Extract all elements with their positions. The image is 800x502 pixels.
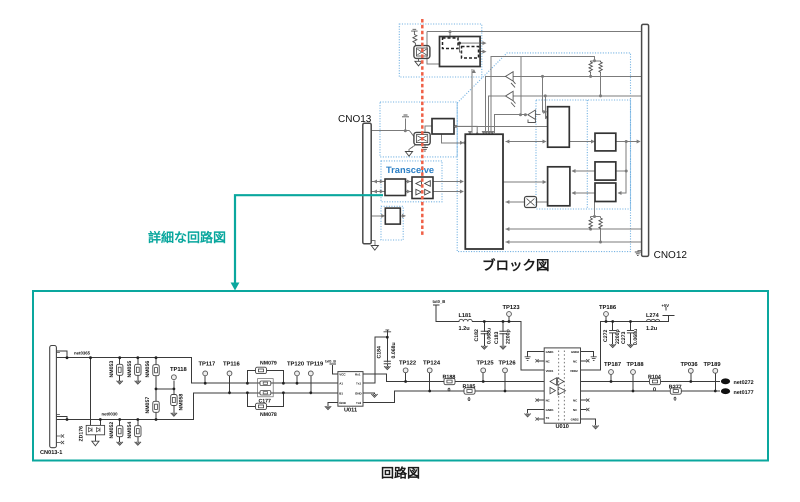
NC marks U010 left bbox=[535, 359, 538, 362]
svg-text:TP189: TP189 bbox=[704, 361, 722, 368]
medium box 1 bbox=[548, 107, 570, 148]
wire U010 pin1 gnd bbox=[528, 351, 545, 356]
wire resistor pair H bbox=[591, 202, 601, 243]
wire medbox1 smallbox1 link bbox=[569, 141, 593, 143]
svg-text:NM054: NM054 bbox=[127, 422, 133, 439]
junction dots blockdiag bbox=[449, 30, 452, 33]
wire NM054 leads bbox=[137, 420, 139, 442]
svg-text:VCC: VCC bbox=[339, 372, 346, 376]
resistor pair H bbox=[589, 218, 602, 228]
svg-text:1.2u: 1.2u bbox=[459, 326, 471, 332]
wire U011 pin1 flag bbox=[330, 364, 338, 374]
ic U010 bbox=[544, 348, 580, 423]
ground C182 bbox=[481, 346, 487, 349]
svg-text:CNO13: CNO13 bbox=[338, 114, 372, 125]
wire TP120 stem bbox=[296, 376, 298, 383]
svg-text:2200p: 2200p bbox=[505, 329, 511, 344]
main IC box bbox=[465, 134, 503, 249]
wire txt0B flag to L181 bbox=[434, 305, 459, 322]
svg-text:ブロック図: ブロック図 bbox=[482, 258, 550, 273]
box C bbox=[432, 119, 454, 134]
wire junction row TP118 bbox=[156, 381, 174, 413]
testpoint TP124 bbox=[427, 368, 432, 373]
ground U010 pin1R bbox=[591, 357, 597, 361]
svg-text:NM053: NM053 bbox=[109, 361, 115, 378]
wire xboxB entry bbox=[410, 131, 414, 137]
zener ZD176 bbox=[86, 425, 104, 434]
wire boxC right bbox=[454, 126, 477, 133]
wire NM079 bypass loop bbox=[247, 370, 283, 383]
buffer T1 bbox=[505, 72, 515, 88]
power flag mid bbox=[402, 115, 409, 117]
ground C184 bbox=[384, 366, 390, 369]
svg-text:VDD2: VDD2 bbox=[570, 369, 578, 373]
svg-text:R104: R104 bbox=[648, 374, 661, 380]
svg-text:CNO12: CNO12 bbox=[654, 250, 688, 261]
wire C273 leads bbox=[630, 322, 632, 344]
wire transceiver row1 bbox=[371, 181, 463, 183]
buffer quad box E bbox=[412, 177, 433, 199]
wire medbox2 smallbox3 link bbox=[572, 192, 595, 194]
wire CNO13 gnd hook bbox=[371, 241, 375, 246]
wire TP186 stem bbox=[605, 316, 607, 321]
svg-text:0: 0 bbox=[448, 387, 451, 393]
xbox T4 bbox=[525, 197, 537, 208]
svg-text:GND: GND bbox=[339, 401, 347, 405]
small box F bbox=[385, 208, 400, 224]
wire medbox2 smallbox2 link bbox=[572, 170, 626, 172]
wire TP126 stem bbox=[504, 373, 506, 391]
svg-text:TP118: TP118 bbox=[170, 366, 188, 373]
testpoint TP125 bbox=[481, 368, 486, 373]
resistor NM079 bbox=[256, 367, 267, 373]
ground U011 pin4 bbox=[325, 406, 331, 409]
ground U010 pin1 bbox=[525, 357, 531, 361]
testpoint TP126 bbox=[503, 368, 508, 373]
svg-text:GND2: GND2 bbox=[571, 418, 579, 422]
svg-text:GND2: GND2 bbox=[571, 350, 579, 354]
svg-text:詳細な回路図: 詳細な回路図 bbox=[148, 230, 226, 245]
wire CNO13 top pin bbox=[371, 119, 409, 131]
testpoint TP036 bbox=[688, 368, 693, 373]
ground flat under box B bbox=[422, 148, 428, 152]
wire U010 pin3R to TP186 node bbox=[581, 308, 669, 371]
svg-text:0: 0 bbox=[674, 396, 677, 402]
teal callout arrow bbox=[235, 195, 383, 284]
wire U011 pin4 gnd bbox=[328, 403, 338, 406]
svg-text:TP187: TP187 bbox=[604, 361, 621, 368]
resistor NM056 bbox=[153, 365, 159, 376]
wire plus5V flag bbox=[663, 315, 674, 317]
ground NM052 bbox=[117, 442, 123, 445]
capacitor C183 bbox=[499, 331, 506, 333]
svg-text:R188: R188 bbox=[443, 375, 456, 381]
wire CNO12 gnd hook bbox=[638, 251, 642, 252]
resistor pair G bbox=[589, 61, 602, 73]
wire buffer1 row bbox=[486, 76, 642, 133]
wire C182 leads bbox=[483, 322, 485, 346]
svg-text:VDD1: VDD1 bbox=[546, 369, 554, 373]
svg-text:C183: C183 bbox=[494, 331, 500, 344]
wire NM053 leads bbox=[119, 358, 121, 381]
svg-text:1.2u: 1.2u bbox=[646, 326, 658, 332]
svg-text:TP125: TP125 bbox=[477, 359, 495, 366]
buffer T3 bbox=[528, 110, 536, 123]
svg-text:NM079: NM079 bbox=[260, 361, 277, 367]
wire U011 pin7 to C184 node bbox=[363, 330, 387, 383]
testpoint TP122 bbox=[403, 368, 408, 373]
inductor L181 bbox=[459, 319, 472, 321]
ground NM054 bbox=[135, 442, 141, 445]
resistor NM058 bbox=[171, 395, 177, 406]
svg-text:ZD176: ZD176 bbox=[79, 426, 85, 442]
wire net0030 bottom bbox=[56, 393, 338, 420]
capacitor C184 bbox=[384, 361, 391, 363]
ground U010 pin8R bbox=[592, 426, 598, 429]
resistor NM055 bbox=[135, 364, 141, 375]
svg-text:C273: C273 bbox=[621, 331, 627, 344]
ground under CNO13 bbox=[371, 246, 378, 251]
connector CNO12 bbox=[642, 24, 649, 256]
ic U011 bbox=[338, 372, 363, 407]
svg-text:TP188: TP188 bbox=[627, 361, 645, 368]
resistor R104 bbox=[650, 378, 661, 384]
ground NM058 bbox=[171, 413, 177, 416]
svg-text:GND1: GND1 bbox=[546, 350, 554, 354]
svg-text:GND: GND bbox=[355, 391, 363, 395]
wire bus U010 to net0272 bbox=[581, 381, 720, 383]
capacitor C272 bbox=[609, 331, 616, 333]
testpoint TP188 bbox=[631, 370, 636, 375]
svg-text:txt0_B: txt0_B bbox=[325, 360, 336, 364]
inductor L274 bbox=[647, 319, 660, 321]
small box 2 bbox=[595, 162, 616, 180]
wire boxC bottom into main IC bbox=[442, 134, 463, 143]
svg-text:NM078: NM078 bbox=[260, 412, 277, 418]
wire U011 pin6 gnd bbox=[363, 392, 375, 395]
svg-text:0: 0 bbox=[468, 397, 471, 403]
svg-text:C184: C184 bbox=[377, 346, 383, 359]
buffer T2 bbox=[505, 91, 515, 107]
svg-text:U011: U011 bbox=[344, 408, 357, 414]
wire U010 NC stubs right bbox=[581, 361, 587, 410]
svg-text:TP123: TP123 bbox=[503, 304, 521, 311]
svg-text:C182: C182 bbox=[474, 329, 480, 342]
resistor NM054 bbox=[135, 426, 141, 437]
svg-text:NM058: NM058 bbox=[178, 394, 184, 411]
svg-text:A1: A1 bbox=[339, 381, 343, 385]
ground NM053 bbox=[117, 381, 123, 384]
ground under CNO12 bbox=[635, 252, 641, 256]
svg-text:NM055: NM055 bbox=[127, 361, 133, 378]
wire U010 pin1R gnd bbox=[581, 351, 594, 356]
wire medbox1 feeds bbox=[543, 76, 549, 117]
dotted region small bbox=[381, 206, 403, 240]
svg-text:TP186: TP186 bbox=[599, 304, 617, 311]
ground NM055 bbox=[135, 381, 141, 384]
svg-text:NM056: NM056 bbox=[145, 361, 151, 378]
connector CN013-1 bbox=[50, 346, 61, 448]
dotted region main chamfered bbox=[457, 53, 630, 252]
NC marks CN013 bbox=[61, 434, 64, 437]
terminal net0177 bbox=[721, 388, 730, 394]
svg-text:B1: B1 bbox=[339, 391, 343, 395]
red dashed cut line bbox=[421, 19, 424, 235]
wire smallboxF bbox=[371, 215, 404, 217]
wire TP124 stem bbox=[429, 373, 431, 391]
testpoint TP123 bbox=[507, 312, 512, 317]
capacitor C273 bbox=[627, 331, 634, 333]
small box 3 bbox=[595, 183, 616, 202]
wire TP116 stem bbox=[229, 376, 231, 393]
wire bus U010 to net0177 bbox=[581, 390, 720, 392]
transformer box B bbox=[414, 132, 430, 144]
wire feedback up into top box bbox=[471, 69, 473, 133]
wire resistor pair loop top bbox=[491, 56, 600, 133]
wire TP188 stem bbox=[632, 374, 634, 391]
wire buffer2 row bbox=[488, 96, 641, 133]
resistor NM057 bbox=[153, 401, 159, 412]
wire TP122 stem bbox=[405, 373, 407, 382]
testpoint TP189 bbox=[713, 368, 718, 373]
wire ZD176 leads bbox=[91, 358, 101, 441]
svg-text:TP036: TP036 bbox=[681, 361, 699, 368]
dotted region Transceive bbox=[381, 161, 442, 202]
svg-text:0.068u: 0.068u bbox=[391, 342, 397, 358]
wire boxC to medbox1 bbox=[454, 125, 548, 127]
svg-text:TP119: TP119 bbox=[307, 361, 325, 368]
wire xboxB to boxC bbox=[425, 126, 432, 132]
testpoint TP119 bbox=[308, 371, 313, 376]
control unit box top bbox=[440, 37, 481, 67]
svg-text:Tx1: Tx1 bbox=[356, 381, 362, 385]
ground C272 bbox=[610, 344, 616, 347]
svg-text:TX: TX bbox=[546, 416, 550, 420]
svg-text:net0365: net0365 bbox=[74, 351, 91, 356]
svg-text:CN013-1: CN013-1 bbox=[40, 450, 62, 456]
svg-text:NM057: NM057 bbox=[145, 397, 151, 414]
capacitor C182 bbox=[481, 331, 488, 333]
wire U010 pin8R gnd bbox=[581, 419, 596, 425]
svg-text:TP122: TP122 bbox=[399, 359, 416, 366]
resistor zigzag top bbox=[413, 31, 417, 45]
terminal net0272 bbox=[721, 378, 730, 384]
wire U010 pin7 gnd bbox=[528, 410, 545, 414]
svg-text:NM052: NM052 bbox=[109, 422, 115, 439]
svg-text:+5V: +5V bbox=[662, 303, 670, 308]
svg-text:0.068u: 0.068u bbox=[633, 329, 639, 345]
connector CNO13 bbox=[363, 123, 371, 244]
antenna flag topmost bbox=[411, 29, 418, 31]
testpoint TP187 bbox=[609, 370, 614, 375]
svg-text:TP117: TP117 bbox=[199, 362, 216, 368]
svg-text:R185: R185 bbox=[463, 384, 476, 390]
wire bottom bus1 bbox=[506, 228, 642, 230]
svg-text:TP124: TP124 bbox=[423, 359, 441, 366]
svg-text:TP126: TP126 bbox=[499, 359, 517, 366]
wire C272 leads bbox=[612, 322, 614, 344]
svg-text:txt0_B: txt0_B bbox=[433, 299, 446, 304]
svg-text:Tx2: Tx2 bbox=[356, 401, 362, 405]
wire mainIC xbox link bbox=[506, 201, 548, 203]
testpoint TP116 bbox=[227, 371, 232, 376]
arrowheads blockdiag bbox=[468, 41, 494, 135]
ground C273 bbox=[627, 344, 633, 347]
wire U011 pin8 to bus bbox=[363, 374, 544, 382]
svg-text:回路図: 回路図 bbox=[381, 466, 420, 481]
wire NM052 leads bbox=[119, 420, 121, 442]
svg-text:C272: C272 bbox=[603, 329, 609, 342]
wire NM078 bypass loop bbox=[247, 393, 283, 407]
wire buffer3 row bbox=[494, 115, 540, 133]
testpoint TP120 bbox=[295, 371, 300, 376]
junction dots circuit bbox=[66, 356, 69, 359]
wire xboxB grounds bbox=[409, 145, 425, 152]
resistor NM078 bbox=[256, 403, 267, 409]
wire TP119 stem bbox=[310, 376, 312, 393]
svg-text:0: 0 bbox=[653, 387, 656, 393]
wire bottom bus2 bbox=[506, 241, 642, 243]
wire U011 pin5 to bus bbox=[363, 391, 544, 403]
NC marks U010 right bbox=[586, 359, 589, 362]
svg-text:R277: R277 bbox=[669, 384, 682, 390]
wire smallbox1 to CNO12 bbox=[616, 142, 640, 194]
dotted region right inner bbox=[536, 100, 631, 209]
svg-text:Transceive: Transceive bbox=[386, 165, 434, 175]
wire TP187 stem bbox=[610, 374, 612, 381]
wire U010 NC stubs left bbox=[539, 361, 545, 419]
ground under box A bbox=[415, 61, 422, 66]
testpoint TP117 bbox=[203, 371, 208, 376]
wire top box output arrows bbox=[479, 43, 485, 52]
wire TP036 stem bbox=[690, 373, 692, 381]
svg-text:net0272: net0272 bbox=[734, 380, 754, 386]
ground arrow left of box B bbox=[405, 152, 412, 157]
wire net0365 top bbox=[56, 351, 338, 383]
resistor NM053 bbox=[117, 364, 123, 375]
svg-text:L274: L274 bbox=[646, 313, 660, 319]
resistor R277 bbox=[670, 388, 681, 394]
wire NM055 leads bbox=[137, 358, 139, 381]
flag txt0_A C184 bbox=[384, 330, 392, 332]
wire L181 to U010 pin3 bbox=[473, 322, 545, 371]
svg-text:0.068u: 0.068u bbox=[487, 328, 493, 344]
svg-text:TP116: TP116 bbox=[223, 361, 241, 368]
wire top bus to CNO12 bbox=[427, 32, 641, 64]
dotted region mid-left bbox=[380, 102, 457, 157]
svg-text:TP120: TP120 bbox=[287, 361, 304, 368]
testpoint TP118 bbox=[172, 375, 177, 380]
dotted region top bbox=[399, 24, 482, 77]
wire TP123 stem bbox=[508, 316, 510, 321]
resistor NM052 bbox=[117, 426, 123, 437]
svg-text:L181: L181 bbox=[459, 313, 472, 319]
ground U011 pin6 bbox=[371, 394, 377, 397]
ground U010 pin7 bbox=[524, 414, 530, 417]
wire TP189 stem bbox=[714, 373, 716, 391]
ground C183 bbox=[500, 346, 506, 349]
wire mainIC medbox1 link bbox=[506, 141, 546, 143]
wire TP117 stem bbox=[204, 376, 206, 383]
circuit frame teal box bbox=[33, 291, 768, 461]
testpoint TP186 bbox=[604, 312, 609, 317]
svg-text:net0030: net0030 bbox=[102, 411, 119, 416]
ground ZD176 bbox=[92, 441, 99, 446]
wire TP125 stem bbox=[482, 373, 484, 382]
resistor R185 bbox=[464, 388, 475, 394]
wire transceiver row2 bbox=[371, 191, 463, 193]
svg-text:net0177: net0177 bbox=[734, 390, 754, 396]
wire C184 lower lead bbox=[386, 365, 388, 367]
driver box D bbox=[385, 179, 406, 196]
svg-text:U010: U010 bbox=[556, 424, 569, 430]
svg-text:GND1: GND1 bbox=[546, 408, 554, 412]
svg-text:Rx1: Rx1 bbox=[355, 372, 361, 376]
dotted divider bbox=[586, 100, 588, 209]
wire mainIC medbox2 link bbox=[503, 181, 546, 183]
small box 1 bbox=[595, 133, 616, 151]
transformer box A bbox=[414, 46, 430, 59]
resistor R188 bbox=[444, 378, 455, 384]
wire NM056 NM057 chain bbox=[155, 358, 157, 420]
medium box 2 bbox=[548, 167, 570, 206]
wire C183 leads bbox=[502, 322, 504, 346]
filter C177 bbox=[258, 379, 274, 397]
wire resistor pair G legs bbox=[591, 73, 601, 96]
